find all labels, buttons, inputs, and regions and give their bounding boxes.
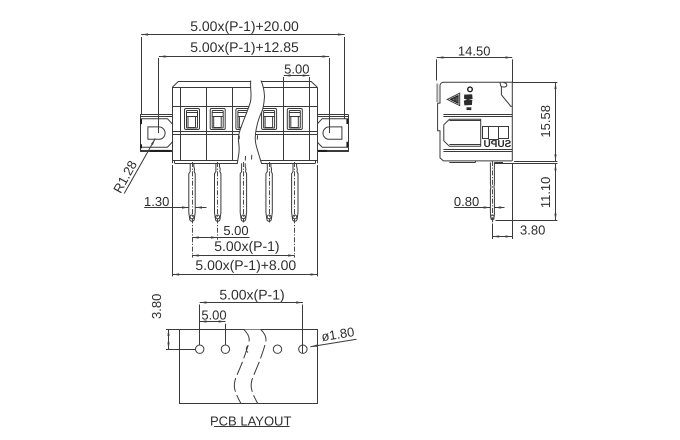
svg-text:0.80: 0.80: [454, 194, 479, 209]
front body bottom band: [172, 161, 317, 164]
body divider 5: [283, 87, 285, 160]
mounting ear right slot: [323, 127, 342, 139]
leader R1.28: [110, 139, 155, 196]
break fragment dashes: [239, 135, 257, 160]
side latch hook: [500, 83, 512, 107]
break line right (front view): [255, 81, 264, 164]
svg-text:5.00: 5.00: [201, 307, 226, 322]
side body left thick edge: [436, 84, 438, 102]
pin 4 (front): [266, 162, 272, 223]
pcb dimension 5.00: [200, 307, 227, 344]
svg-text:5.00: 5.00: [284, 61, 309, 76]
dimension 5.00 (top pitch): [284, 61, 310, 87]
pcb hole 5: [299, 345, 307, 353]
title PCB LAYOUT: [210, 413, 291, 428]
dimension 5.00x(P-1)+8.00: [172, 165, 317, 276]
mounting ear left plate: [140, 119, 172, 148]
dimension 15.58: [512, 82, 557, 161]
svg-text:SUPU: SUPU: [484, 139, 512, 150]
svg-text:5.00x(P-1): 5.00x(P-1): [214, 238, 279, 254]
body divider 1: [180, 87, 182, 160]
dimension 3.80 (side): [492, 163, 545, 239]
svg-text:5.00x(P-1)+20.00: 5.00x(P-1)+20.00: [190, 18, 299, 34]
side bottom plate: [449, 161, 503, 163]
pcb break band white fill: [234, 330, 266, 403]
mounting ear right plate: [317, 119, 348, 148]
contact slot 2: [210, 109, 225, 130]
body divider 2: [206, 87, 208, 160]
svg-text:5.00x(P-1)+8.00: 5.00x(P-1)+8.00: [195, 257, 296, 273]
body divider 6: [309, 87, 311, 160]
svg-text:3.80: 3.80: [520, 223, 545, 238]
pcb hole 4: [273, 345, 281, 353]
warning triangle symbol: [447, 93, 460, 105]
pcb break line left: [234, 329, 249, 403]
svg-text:5.00: 5.00: [223, 223, 248, 238]
pin 1 (front): [189, 162, 195, 258]
side clamp block: [444, 119, 481, 146]
side contact cavity rects: [483, 127, 509, 140]
dimension 5.00x(P-1) (pins): [192, 238, 295, 255]
dimension 5.00x(P-1)+12.85: [159, 39, 330, 133]
pcb hole 2: [221, 345, 229, 353]
left ear thick edge marks: [140, 119, 170, 152]
mounting rail left segment: [140, 115, 172, 152]
front body outline: [172, 82, 317, 164]
right ear thick edge marks: [318, 119, 348, 152]
svg-text:5.00x(P-1): 5.00x(P-1): [219, 287, 284, 303]
svg-text:14.50: 14.50: [458, 44, 491, 59]
svg-text:15.58: 15.58: [538, 105, 553, 138]
svg-text:1.30: 1.30: [144, 194, 169, 209]
mounting ear left slot R1.28: [148, 127, 165, 139]
pin 5 (front): [292, 162, 298, 258]
pcb leader Ø1.80: [310, 324, 356, 347]
body divider 3: [232, 87, 234, 160]
mounting rail right segment: [317, 115, 348, 152]
pcb hole 1: [196, 345, 204, 353]
pcb dimension 3.80: [149, 294, 196, 350]
pcb dimension 5.00x(P-1): [200, 287, 303, 354]
break band white fill: [237, 81, 264, 164]
dimension 11.10: [495, 164, 558, 221]
pcb hole 3 fragment: [246, 346, 248, 353]
side rail seam lines: [443, 115, 512, 152]
front body mid lines (rail seam): [172, 132, 317, 135]
dimension 14.50: [437, 44, 513, 82]
dimension 5.00 (pin pitch): [192, 223, 250, 238]
svg-text:5.00x(P-1)+12.85: 5.00x(P-1)+12.85: [190, 39, 299, 55]
svg-text:3.80: 3.80: [149, 294, 164, 319]
pcb board outline: [166, 330, 318, 404]
certification marks column: [464, 87, 473, 110]
pin 2 (front): [215, 162, 221, 240]
pin (side view): [490, 161, 494, 222]
contact slot 5: [287, 109, 302, 130]
pin 3 (front): [240, 162, 246, 223]
svg-text:11.10: 11.10: [538, 177, 553, 209]
dimension 1.30 (pin width): [144, 194, 207, 209]
pcb break line right: [251, 329, 266, 403]
side body outline: [438, 82, 513, 161]
contact slot 4: [262, 109, 277, 130]
contact slot 3 (clipped by break): [236, 109, 251, 130]
dimension 0.80: [454, 194, 505, 209]
dimension 5.00x(P-1)+20.00: [141, 18, 345, 119]
contact slot 1: [185, 109, 200, 130]
break line left (front view): [237, 81, 251, 164]
